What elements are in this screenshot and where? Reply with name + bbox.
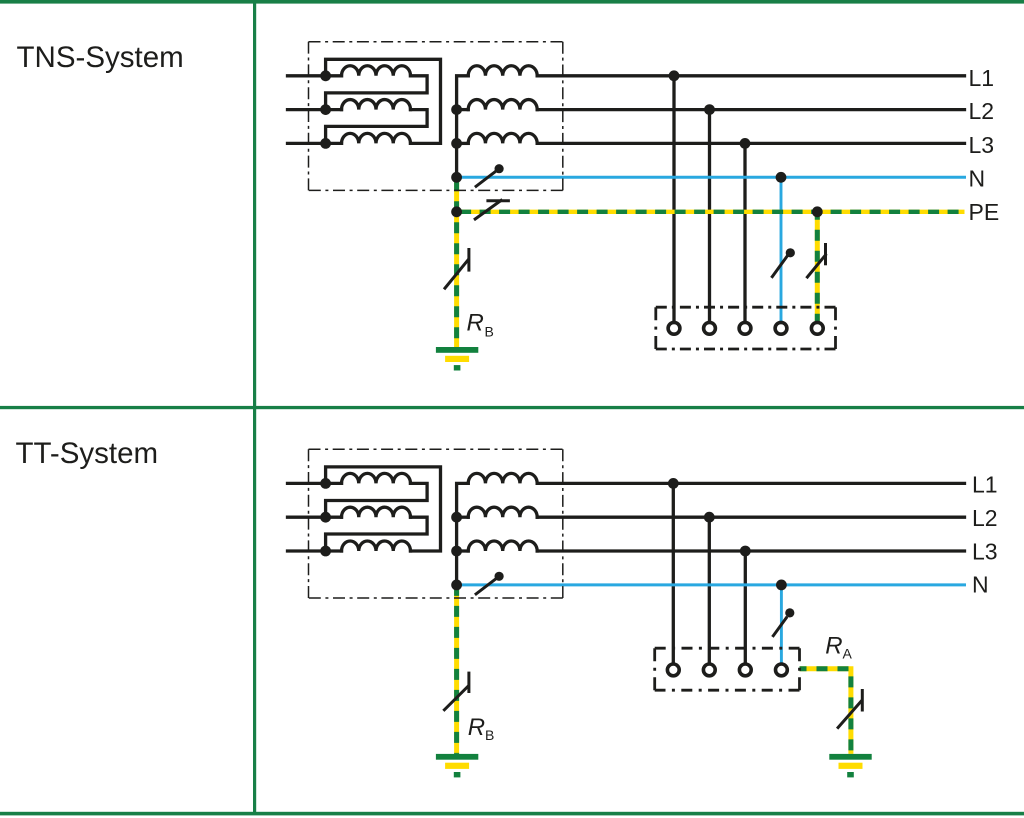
wire PE (green-yellow) TNS: [457, 210, 965, 214]
consumer installation box TNS: [656, 307, 836, 349]
table horizontal divider: [0, 406, 1024, 409]
switch on RA earthing conductor TT: [838, 691, 862, 728]
svg-text:L1: L1: [969, 65, 995, 91]
label RB TNS: [467, 310, 494, 340]
primary winding coil row1 TNS: [342, 66, 411, 76]
junction dot L1 drop TNS: [669, 70, 680, 81]
svg-text:L2: L2: [969, 98, 995, 124]
primary winding coil row1 TT: [342, 473, 411, 483]
secondary winding coil row3 TNS: [468, 133, 537, 143]
secondary winding coil row3 TT: [468, 541, 537, 551]
drop wire N (blue) to consumer TT: [780, 585, 783, 663]
junction dot star L2 TNS: [451, 104, 462, 115]
wire feed L2 primary TNS: [288, 108, 342, 111]
secondary connection L3 to star TNS: [457, 142, 469, 145]
switch on N at star point TNS: [476, 164, 504, 186]
wire L1 TNS: [537, 74, 964, 77]
terminal N TT: [776, 664, 788, 676]
terminal PE TNS: [811, 322, 823, 334]
secondary star-point vertical wire TT: [457, 483, 469, 585]
transformer boundary box TNS: [309, 42, 563, 191]
junction dot primary L1 TT: [320, 478, 331, 489]
junction dot N drop TT: [776, 580, 787, 591]
svg-text:L1: L1: [972, 471, 998, 497]
earth electrode RB TT: [436, 754, 478, 778]
node N star point TT: [451, 580, 462, 591]
wire feed L1 primary TT: [288, 482, 342, 485]
consumer installation box TT: [655, 648, 800, 690]
primary winding coil row2 TT: [342, 507, 411, 517]
drop wire L2 to consumer TNS: [708, 110, 711, 322]
wire feed L2 primary TT: [288, 516, 342, 519]
junction dot primary L3 TNS: [320, 138, 331, 149]
junction dot L2 drop TNS: [704, 104, 715, 115]
junction dot star L3 TT: [451, 546, 462, 557]
junction dot primary L3 TT: [320, 546, 331, 557]
primary winding coil row3 TT: [342, 541, 411, 551]
drop wire L1 to consumer TNS: [672, 76, 675, 321]
PE conductor star point to earth TNS: [454, 177, 459, 347]
secondary connection L3 to star TT: [457, 549, 469, 552]
wire feed L1 primary TNS: [288, 74, 342, 77]
drop wire L1 to consumer TT: [672, 483, 675, 663]
junction dot L1 drop TT: [668, 478, 679, 489]
svg-text:TT-System: TT-System: [16, 437, 159, 470]
svg-text:A: A: [843, 646, 853, 662]
svg-text:R: R: [825, 632, 842, 659]
terminal L1 TNS: [668, 322, 680, 334]
junction dot primary L2 TNS: [320, 104, 331, 115]
junction dot star L2 TT: [451, 512, 462, 523]
terminal L3 TNS: [739, 322, 751, 334]
earthing conductor RA from consumer to earth TT: [800, 669, 851, 754]
drop wire PE to consumer TNS: [815, 212, 820, 321]
label RA TT: [825, 632, 852, 661]
terminal L3 TT: [739, 664, 751, 676]
terminal L1 TT: [667, 664, 679, 676]
svg-text:L3: L3: [972, 539, 998, 565]
earth electrode RB TNS: [436, 347, 478, 371]
junction dot L3 drop TT: [740, 546, 751, 557]
primary delta interconnection wiring TT: [326, 467, 441, 551]
secondary winding coil row1 TNS: [468, 66, 537, 76]
secondary star-point vertical wire TNS: [457, 76, 469, 178]
secondary winding coil row2 TT: [468, 507, 537, 517]
table vertical divider: [253, 0, 256, 813]
svg-text:R: R: [468, 714, 485, 741]
table frame bottom border: [0, 812, 1024, 816]
junction dot primary L1 TNS: [320, 70, 331, 81]
drop wire L3 to consumer TNS: [743, 143, 746, 321]
drop wire L2 to consumer TT: [708, 517, 711, 663]
primary delta interconnection wiring TNS: [326, 59, 441, 143]
svg-text:B: B: [485, 727, 494, 743]
svg-text:N: N: [969, 166, 986, 192]
switch on N drop TNS: [772, 248, 795, 276]
drop wire L3 to consumer TT: [744, 551, 747, 663]
node N star point TNS: [451, 172, 462, 183]
switch on N drop TT: [773, 608, 794, 635]
primary winding coil row2 TNS: [342, 100, 411, 110]
switch on RB earthing conductor TT: [444, 673, 469, 710]
junction dot PE drop TNS: [812, 206, 823, 217]
wire L3 TT: [537, 549, 964, 552]
wire L2 TT: [537, 516, 964, 519]
svg-text:PE: PE: [969, 199, 1000, 225]
svg-text:N: N: [972, 572, 989, 598]
wire feed L3 primary TNS: [288, 142, 342, 145]
switch on N at star point TT: [476, 572, 504, 594]
terminal L2 TNS: [704, 322, 716, 334]
terminal L2 TT: [703, 664, 715, 676]
svg-text:B: B: [485, 323, 494, 339]
secondary connection L2 to star TNS: [457, 108, 469, 111]
secondary winding coil row2 TNS: [468, 100, 537, 110]
secondary connection L2 to star TT: [457, 516, 469, 519]
label RB TT: [468, 714, 495, 743]
wire N (blue) TT: [457, 583, 965, 586]
transformer boundary box TT: [309, 449, 563, 598]
svg-text:R: R: [467, 310, 484, 337]
terminal N TNS: [775, 322, 787, 334]
switch on PE earthing conductor TNS: [445, 250, 469, 289]
svg-text:L3: L3: [969, 132, 995, 158]
wire N (blue) TNS: [457, 176, 965, 179]
node PE TNS: [451, 206, 462, 217]
wire L2 TNS: [537, 108, 964, 111]
switch on PE near star TNS: [475, 200, 508, 219]
wire feed L3 primary TT: [288, 549, 342, 552]
earthing conductor star point to RB earth TT: [454, 585, 459, 754]
primary winding coil row3 TNS: [342, 133, 411, 143]
earth electrode RA TT: [829, 754, 871, 778]
drop wire N (blue) to consumer TNS: [780, 177, 783, 321]
switch on PE drop TNS: [807, 245, 825, 278]
junction dot primary L2 TT: [320, 512, 331, 523]
junction dot L2 drop TT: [704, 512, 715, 523]
secondary winding coil row1 TT: [468, 473, 537, 483]
junction dot L3 drop TNS: [740, 138, 751, 149]
wire L3 TNS: [537, 142, 964, 145]
svg-text:TNS-System: TNS-System: [17, 41, 184, 74]
junction dot N drop TNS: [776, 172, 787, 183]
svg-text:L2: L2: [972, 505, 998, 531]
junction dot star L3 TNS: [451, 138, 462, 149]
table frame top border: [0, 0, 1024, 4]
wire L1 TT: [537, 482, 964, 485]
